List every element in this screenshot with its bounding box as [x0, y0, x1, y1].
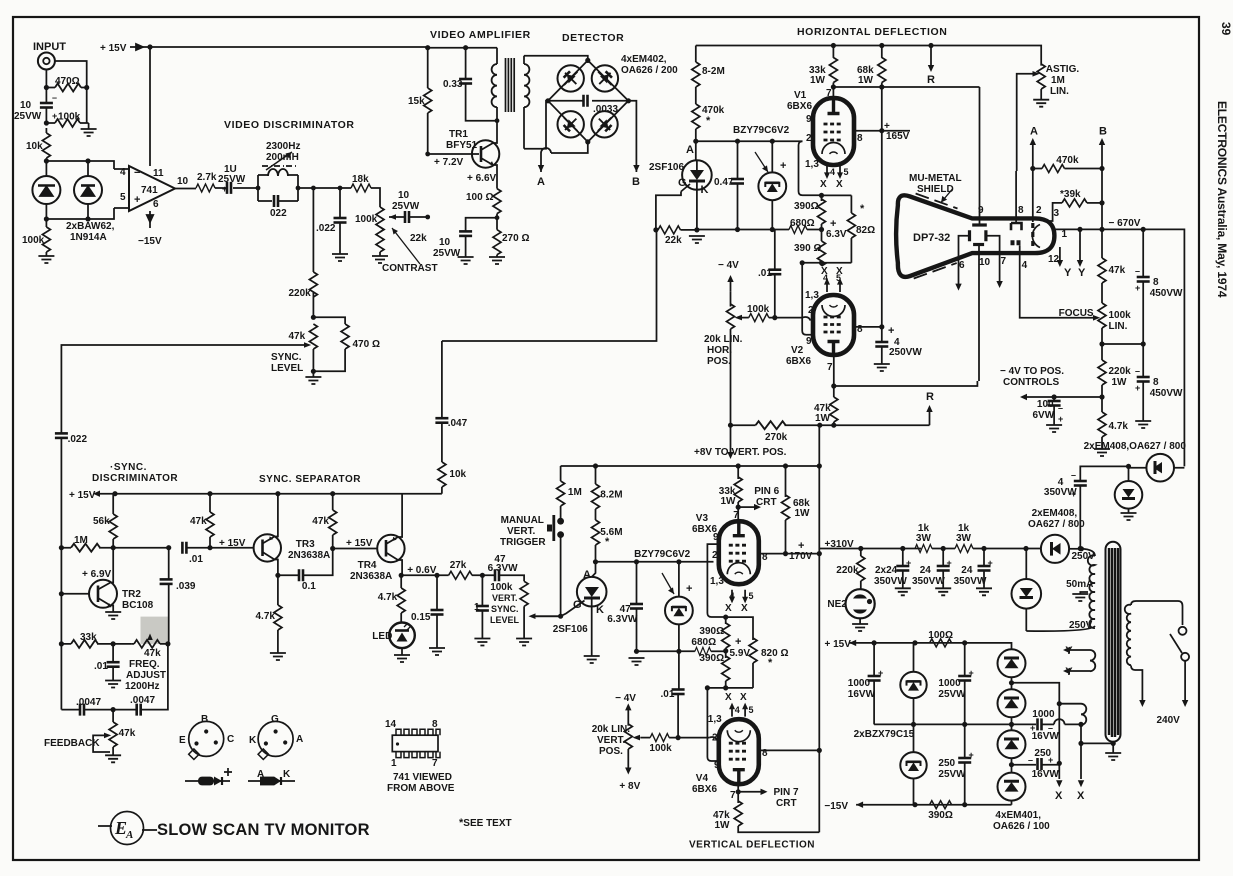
- wire: [1057, 260, 1063, 267]
- box: [198, 777, 214, 786]
- wire: [972, 223, 987, 226]
- wire: [60, 594, 62, 644]
- wire: [595, 509, 597, 520]
- ground: [629, 658, 645, 665]
- svg-text:4: 4: [730, 591, 735, 601]
- svg-text:7: 7: [432, 758, 438, 769]
- cap 1000 25VW: [964, 643, 966, 676]
- wire: [725, 648, 727, 658]
- sync takeoff wire from .047 line: [442, 230, 657, 341]
- wire: [983, 571, 985, 589]
- svg-text:C: C: [227, 734, 234, 745]
- junction node: [207, 545, 212, 550]
- wire: [662, 573, 674, 594]
- wire: [131, 643, 168, 645]
- wire: [690, 170, 704, 180]
- wire: [428, 47, 497, 49]
- svg-text:+: +: [1030, 723, 1035, 733]
- wire: [385, 540, 388, 557]
- wire: [111, 580, 114, 612]
- wire: [735, 730, 743, 732]
- svg-text:470k: 470k: [1056, 155, 1079, 166]
- junction node: [962, 640, 967, 645]
- resistor body: [71, 544, 100, 552]
- TR4 base wire: [333, 548, 378, 550]
- wire: [186, 547, 253, 549]
- wire: [547, 525, 552, 532]
- svg-text:7: 7: [1001, 256, 1007, 267]
- hor pos pot 20k: [730, 292, 732, 307]
- wire: [672, 607, 686, 611]
- connector pinout GKA: [258, 721, 293, 756]
- cap 47 6.3VW vert: [636, 562, 638, 604]
- svg-text:16VW: 16VW: [1032, 769, 1060, 780]
- wire: [755, 152, 768, 172]
- X coil: [1059, 704, 1086, 725]
- capacitor body: [896, 566, 909, 571]
- diode D3 EM402: [558, 65, 584, 91]
- svg-text:X: X: [725, 603, 732, 614]
- wire: [280, 777, 282, 785]
- resistor 1M trigger: [560, 466, 562, 481]
- svg-text:+ 15V: + 15V: [69, 490, 96, 501]
- resistor 39k: [1062, 199, 1087, 207]
- junction node: [59, 641, 64, 646]
- junction node: [817, 423, 822, 428]
- zener BZX79C15 #1: [900, 672, 926, 698]
- junction node: [1078, 722, 1083, 727]
- resistor 33k: [71, 640, 98, 648]
- capacitor 1U 25VW: [227, 182, 231, 194]
- wire: [907, 760, 921, 763]
- wire: [481, 575, 483, 608]
- svg-text:DISCRIMINATOR: DISCRIMINATOR: [92, 473, 178, 484]
- wire: [1017, 74, 1036, 171]
- -15V rail: [856, 804, 1011, 806]
- junction node: [867, 599, 872, 604]
- svg-text:56k: 56k: [93, 516, 110, 527]
- svg-text:350VW: 350VW: [912, 576, 945, 587]
- wire: [771, 141, 773, 229]
- svg-text:7: 7: [827, 362, 833, 373]
- svg-text:DETECTOR: DETECTOR: [562, 32, 624, 44]
- ground: [105, 755, 121, 762]
- junction node: [981, 546, 986, 551]
- svg-text:2SF106: 2SF106: [649, 162, 684, 173]
- svg-text:MU-METAL: MU-METAL: [909, 173, 962, 184]
- capacitor body: [334, 218, 347, 223]
- cap 8 450VW lower: [1142, 344, 1144, 377]
- wire: [392, 228, 420, 264]
- wire: [87, 161, 89, 176]
- junction node: [558, 614, 563, 619]
- svg-text:390Ω: 390Ω: [928, 810, 953, 821]
- wire: [389, 214, 396, 220]
- cathode network rail: [822, 194, 852, 196]
- cap 24 350VW #2: [942, 549, 944, 567]
- junction node: [723, 648, 728, 653]
- svg-text:–: –: [1028, 755, 1033, 765]
- junction rail v4: [707, 687, 753, 689]
- svg-text:6BX6: 6BX6: [692, 784, 717, 795]
- resistor 390 ohm: [821, 195, 823, 201]
- transformer T1 secondary: [523, 56, 525, 64]
- tuned circuit L1 2300Hz 200mH with cap 022: [258, 175, 298, 201]
- wire: [907, 680, 921, 683]
- box: [813, 295, 854, 355]
- wire: [730, 329, 732, 425]
- svg-text:+: +: [1048, 755, 1053, 765]
- wire: [561, 601, 585, 617]
- resistor body: [818, 199, 826, 224]
- wire: [404, 623, 411, 630]
- svg-text:Y: Y: [1078, 267, 1086, 279]
- svg-text:V2: V2: [791, 345, 804, 356]
- svg-text:47k: 47k: [190, 516, 207, 527]
- junction node: [928, 43, 933, 48]
- component outline: [111, 812, 144, 845]
- 50mA tap ground: [1080, 592, 1088, 594]
- wire: [1093, 315, 1100, 321]
- junction node: [338, 186, 343, 191]
- svg-text:BZY79C6V2: BZY79C6V2: [634, 549, 691, 560]
- wire: [1101, 283, 1103, 303]
- group: [196, 152, 430, 297]
- svg-text:8: 8: [1153, 377, 1159, 388]
- wire: [785, 520, 787, 554]
- wire: [268, 169, 288, 176]
- svg-text:–: –: [1048, 723, 1053, 733]
- wire: [209, 537, 211, 548]
- wire: [312, 349, 314, 371]
- control rail to V3 grid: [596, 561, 714, 563]
- ground: [332, 254, 348, 261]
- resistor 4.7k TR4: [400, 575, 402, 588]
- svg-text:A: A: [1030, 126, 1038, 138]
- wire: [98, 583, 111, 606]
- wire: [1025, 549, 1027, 632]
- svg-text:A: A: [257, 769, 264, 780]
- svg-text:0.33: 0.33: [443, 79, 463, 90]
- resistor body: [829, 58, 837, 83]
- wire: [591, 598, 593, 656]
- V4 pin7: [737, 784, 739, 803]
- pin10 wire: [978, 246, 980, 381]
- svg-text:390Ω: 390Ω: [699, 626, 724, 637]
- wire: [902, 571, 904, 589]
- svg-text:+: +: [1071, 489, 1076, 499]
- junction node: [819, 260, 824, 265]
- svg-text:24: 24: [920, 565, 932, 576]
- wire: [765, 182, 779, 185]
- svg-text:TR4: TR4: [358, 560, 377, 571]
- capacitor body: [630, 604, 643, 609]
- gun electrode pin 9: [979, 87, 981, 224]
- svg-text:V4: V4: [696, 773, 709, 784]
- bottom rail k/0.47/zener: [697, 229, 789, 231]
- svg-text:X: X: [1077, 790, 1085, 802]
- resistor 100k vert: [650, 734, 669, 742]
- V3 pin8 wire +170V: [759, 553, 820, 555]
- wire: [822, 143, 845, 155]
- svg-text:10k: 10k: [26, 141, 43, 152]
- svg-text:LEVEL: LEVEL: [490, 615, 520, 625]
- junction node: [1111, 741, 1116, 746]
- group: [1005, 659, 1019, 792]
- wire: [304, 342, 311, 348]
- wire: [735, 315, 743, 321]
- wire: [733, 523, 745, 536]
- wire: [496, 107, 498, 121]
- svg-text:11: 11: [153, 168, 164, 179]
- transistor TR1 BFY51: [472, 140, 499, 167]
- V1 pin7: [832, 83, 834, 99]
- wire: [853, 594, 867, 598]
- resistor body: [734, 477, 742, 502]
- junction node: [912, 640, 917, 645]
- junction node: [264, 741, 268, 745]
- svg-text:*: *: [605, 536, 610, 548]
- wire: [955, 284, 961, 291]
- pin3 wire to 39k: [1049, 203, 1062, 221]
- resistor body: [206, 512, 214, 537]
- wire: [427, 113, 429, 154]
- svg-text:+: +: [947, 558, 952, 568]
- junction node: [425, 215, 430, 220]
- input connector J1: [38, 53, 55, 70]
- wire: [830, 152, 838, 154]
- svg-text:39: 39: [1219, 22, 1233, 36]
- zener diode BZY79C6V2: [758, 172, 786, 200]
- op-amp U1 741: [129, 166, 175, 211]
- wire: [1013, 240, 1019, 245]
- wire: [1063, 647, 1070, 653]
- wire: [40, 187, 53, 197]
- svg-text:R: R: [926, 391, 934, 403]
- wire: [61, 709, 80, 711]
- connector pinout BEC: [189, 721, 224, 756]
- svg-text:*: *: [860, 203, 865, 215]
- LED: [389, 623, 415, 649]
- svg-text:+: +: [222, 184, 227, 194]
- wire: [313, 349, 345, 371]
- wire: [1142, 282, 1144, 345]
- .0047 rail: [60, 644, 62, 710]
- wire: [428, 153, 479, 155]
- svg-text:50mA: 50mA: [1066, 579, 1093, 590]
- svg-text:5: 5: [120, 192, 126, 203]
- wire: [1109, 548, 1118, 737]
- capacitor body: [868, 676, 881, 681]
- wire: [1154, 462, 1163, 473]
- wire: [1020, 394, 1027, 400]
- vert pos pot 20k: [627, 710, 629, 726]
- svg-text:5: 5: [749, 705, 754, 715]
- junction node: [831, 84, 836, 89]
- capacitor body: [137, 704, 141, 716]
- svg-text:–: –: [52, 93, 57, 103]
- svg-text:47k: 47k: [119, 728, 136, 739]
- junction node: [585, 139, 590, 144]
- wire: [1078, 780, 1084, 787]
- svg-text:16VW: 16VW: [1032, 731, 1060, 742]
- svg-text:2xBZX79C15: 2xBZX79C15: [854, 729, 915, 740]
- svg-text:741: 741: [141, 185, 158, 196]
- ASTIG pot 1M: [1037, 64, 1045, 89]
- svg-text:HORIZONTAL DEFLECTION: HORIZONTAL DEFLECTION: [797, 26, 947, 38]
- junction node: [819, 193, 824, 198]
- pot 100k CONTRAST: [376, 207, 384, 232]
- wire: [215, 187, 228, 189]
- junction node: [1078, 741, 1083, 746]
- wire: [224, 768, 232, 776]
- svg-text:.047: .047: [448, 418, 468, 429]
- wire: [87, 204, 89, 219]
- svg-text:*SEE TEXT: *SEE TEXT: [459, 817, 512, 829]
- svg-text:3: 3: [1054, 208, 1060, 219]
- svg-text:–: –: [1135, 266, 1140, 276]
- wire: [941, 196, 947, 203]
- wire screen rail to CRT pin9: [833, 86, 979, 88]
- resistor 10k: [438, 462, 446, 487]
- wire: [1090, 650, 1095, 671]
- wire: [914, 263, 957, 279]
- svg-text:B: B: [632, 176, 640, 188]
- svg-text:PIN 7: PIN 7: [774, 787, 799, 798]
- svg-text:VIDEO AMPLIFIER: VIDEO AMPLIFIER: [430, 29, 531, 41]
- svg-text:FREQ.: FREQ.: [129, 659, 160, 670]
- group: [59, 491, 561, 763]
- junction node: [962, 802, 967, 807]
- wire: [472, 574, 494, 576]
- wire: [61, 547, 168, 549]
- svg-text:X: X: [820, 179, 827, 190]
- svg-text:2: 2: [712, 550, 718, 561]
- svg-text:200mH: 200mH: [266, 152, 299, 163]
- svg-text:G: G: [271, 714, 279, 725]
- svg-text:VERT.: VERT.: [492, 593, 518, 603]
- svg-text:6.3V: 6.3V: [826, 229, 847, 240]
- -670V cap rail: [1102, 229, 1184, 466]
- gate wire to 22k: [656, 192, 681, 230]
- svg-text:E: E: [179, 735, 186, 746]
- wire: [551, 142, 588, 153]
- V3 6BX6 tube: [719, 521, 759, 584]
- wire: [1182, 700, 1188, 707]
- junction node: [634, 559, 639, 564]
- wire: [45, 128, 47, 169]
- junction node: [1077, 227, 1082, 232]
- resistor 4.7k: [1098, 412, 1106, 437]
- wire: [738, 826, 819, 832]
- 820 ohm: [726, 617, 753, 640]
- zener column wires: [913, 643, 915, 805]
- junction node: [1009, 722, 1014, 727]
- wire: [523, 606, 525, 638]
- wire: [499, 575, 524, 581]
- V2 grid bracket: [802, 263, 814, 335]
- svg-text:4xEM402,: 4xEM402,: [621, 54, 667, 65]
- svg-text:4: 4: [735, 705, 740, 715]
- svg-text:+ 0.6V: + 0.6V: [407, 565, 437, 576]
- wire: [625, 768, 631, 775]
- resistor body: [397, 588, 405, 613]
- mid rail: [874, 723, 1011, 725]
- junction node: [626, 98, 631, 103]
- junction node: [275, 491, 280, 496]
- V2 heater arrows X X: [827, 281, 840, 292]
- wire: [828, 342, 840, 354]
- svg-text:.01: .01: [94, 661, 108, 672]
- junction node: [817, 551, 822, 556]
- V4 pin8 wire: [759, 749, 820, 751]
- cap .0033: [548, 100, 628, 102]
- svg-text:ASTIG.: ASTIG.: [1046, 64, 1080, 75]
- resistor 270ohm: [493, 230, 501, 255]
- box: [392, 735, 438, 751]
- junction node: [941, 546, 946, 551]
- svg-text:+: +: [134, 194, 140, 206]
- +15V feed wire down through op-amp: [149, 47, 151, 228]
- ground: [38, 256, 54, 263]
- diode D6 EM402: [591, 111, 617, 137]
- svg-text:10k: 10k: [449, 469, 466, 480]
- cap 4 250VW: [881, 327, 883, 342]
- wire: [263, 537, 275, 560]
- svg-text:2SF106: 2SF106: [553, 624, 588, 635]
- wire: [1131, 601, 1183, 625]
- svg-text:350VW: 350VW: [874, 576, 907, 587]
- wire: [175, 188, 196, 190]
- svg-text:·SYNC.: ·SYNC.: [110, 462, 147, 473]
- resistor 22k gate: [658, 226, 681, 234]
- R net arrow lower: [929, 411, 931, 425]
- ground: [935, 588, 951, 595]
- wire: [785, 424, 820, 426]
- mains switch: [1179, 627, 1187, 635]
- svg-text:− 4V: − 4V: [718, 260, 739, 271]
- -4V TO POS CONTROLS wire: [1054, 396, 1102, 398]
- right column vertical: [1101, 169, 1103, 259]
- transformer T1 primary: [496, 48, 498, 64]
- resistor 1M: [59, 545, 64, 550]
- A net arrow: [1032, 144, 1034, 169]
- svg-text:NE2: NE2: [827, 599, 847, 610]
- junction node: [311, 369, 316, 374]
- wire: [275, 494, 278, 576]
- wire: [689, 180, 705, 183]
- wire: [727, 563, 750, 575]
- svg-text:Y: Y: [1065, 645, 1073, 657]
- capacitor body: [584, 95, 588, 107]
- resistor 2.7k: [196, 184, 215, 192]
- wire: [761, 789, 768, 795]
- wire: [38, 184, 55, 187]
- svg-text:TR2: TR2: [122, 589, 141, 600]
- wire: [371, 188, 380, 207]
- wiper wire to left vertical: [61, 345, 307, 433]
- svg-text:100Ω: 100Ω: [928, 630, 953, 641]
- svg-text:18k: 18k: [352, 174, 369, 185]
- cap 47 6.3VW: [495, 569, 499, 581]
- resistor 100k: [55, 119, 80, 127]
- svg-text:SLOW SCAN TV MONITOR: SLOW SCAN TV MONITOR: [157, 821, 370, 839]
- wire: [695, 87, 697, 104]
- cap 10 25VW emitter bypass: [466, 218, 497, 232]
- wire: [824, 317, 841, 332]
- wire: [274, 777, 281, 786]
- junction node: [912, 802, 917, 807]
